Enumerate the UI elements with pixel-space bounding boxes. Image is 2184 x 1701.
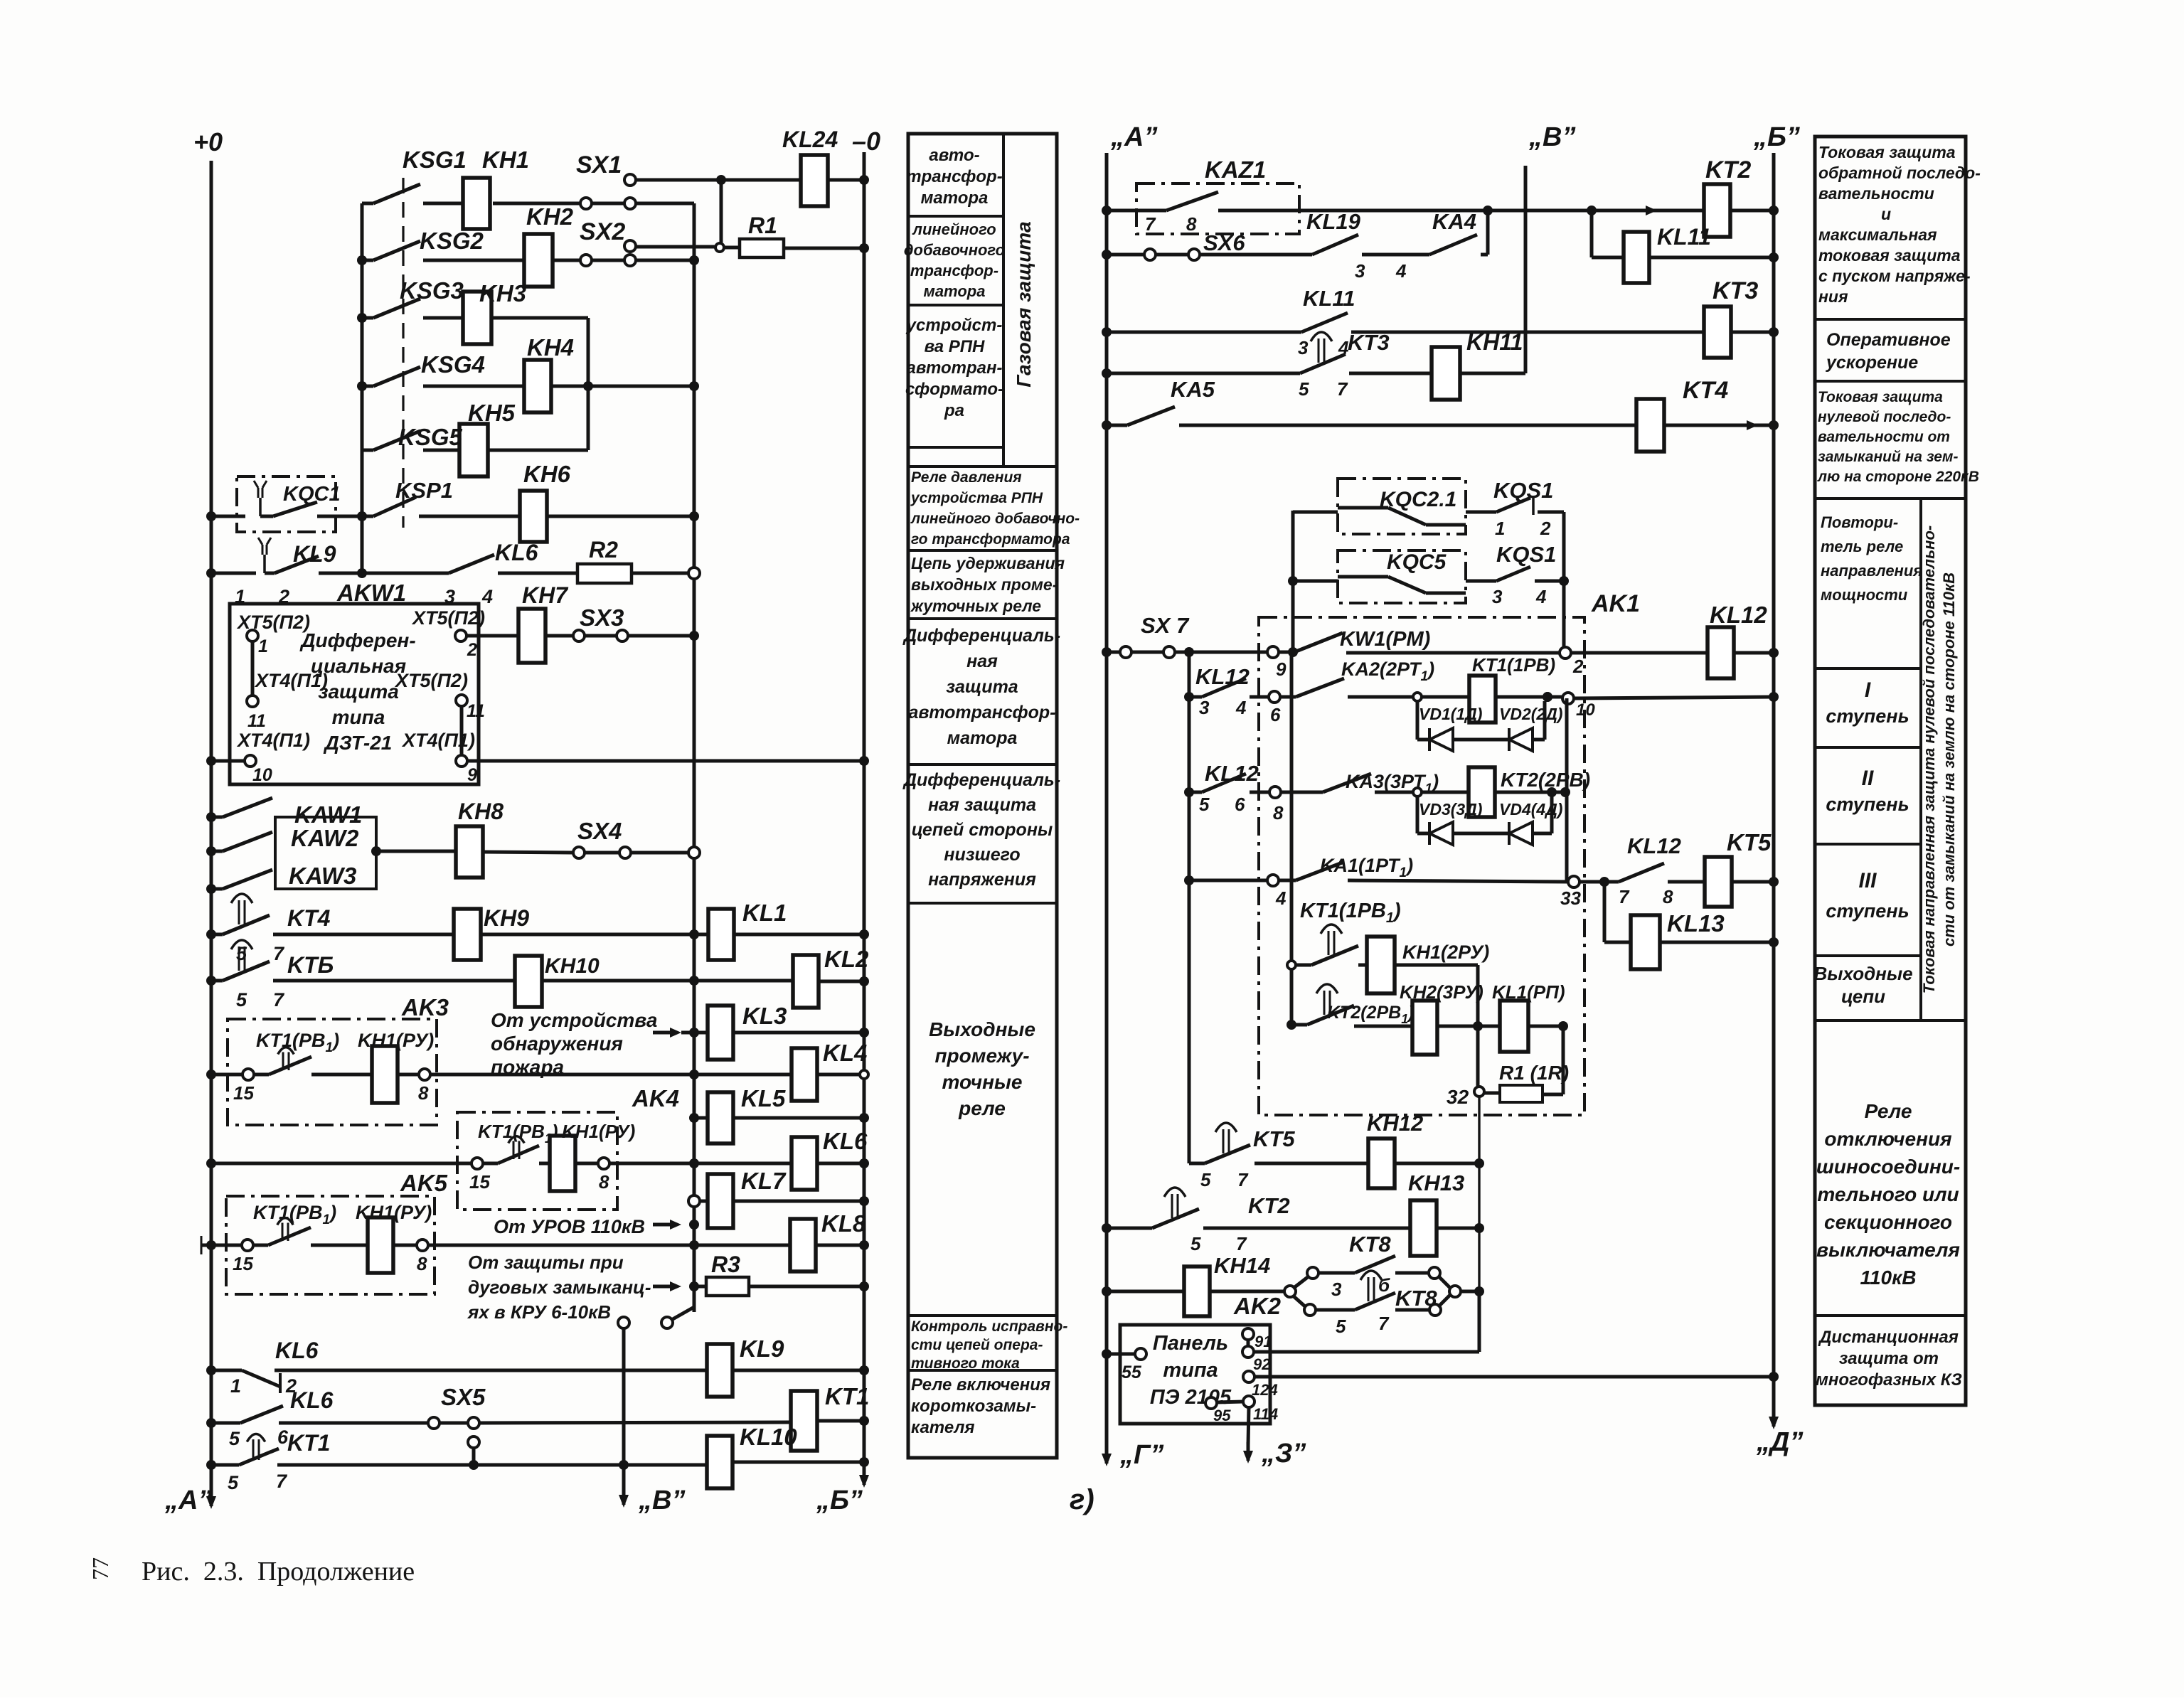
svg-text:жуточных реле: жуточных реле	[910, 597, 1041, 615]
svg-text:обнаружения: обнаружения	[491, 1033, 623, 1055]
apparatus box KQC5 (dash-dot)	[1288, 576, 1298, 586]
wire +0 to AK4	[206, 1158, 216, 1168]
svg-text:KL13: KL13	[1667, 910, 1725, 937]
table divider lines (left table)	[908, 465, 1057, 468]
wire KSG collector vertical	[361, 203, 364, 573]
svg-text:KTБ: KTБ	[287, 952, 334, 978]
link SX3	[545, 634, 573, 638]
svg-text:10: 10	[1576, 700, 1595, 720]
relay coil KL13	[1631, 915, 1660, 969]
svg-text:KH14: KH14	[1214, 1253, 1270, 1278]
wire KL1 to -0 bus	[734, 933, 864, 937]
terminal 8 AK5	[393, 1244, 417, 1247]
svg-text:авто-: авто-	[929, 146, 979, 165]
relay coil KL5	[689, 1113, 699, 1123]
link SX5	[279, 1422, 428, 1425]
contact KA1(1PT1)	[1184, 875, 1194, 885]
svg-text:8: 8	[599, 1171, 609, 1193]
svg-text:5: 5	[236, 943, 247, 964]
svg-text:SX5: SX5	[441, 1384, 486, 1410]
terminal 124 AK2	[1243, 1371, 1255, 1382]
right annotation table frame	[1815, 137, 1966, 1405]
apparatus box AK3 (dash-dot)	[228, 1019, 437, 1125]
apparatus box KQC1 (dash-dot)	[237, 476, 336, 532]
svg-text:7: 7	[1236, 1233, 1247, 1254]
wire vertical KL1 to R1(1R)	[1562, 1026, 1565, 1094]
relay coil KH8	[456, 826, 483, 878]
svg-text:сти цепей опера-: сти цепей опера-	[911, 1337, 1043, 1353]
contact KSG3	[357, 313, 367, 323]
svg-text:секционного: секционного	[1824, 1211, 1952, 1233]
contact KA3(3PT1)	[1281, 791, 1323, 794]
svg-text:KL10: KL10	[740, 1424, 797, 1450]
apparatus box AKW1 (D3T-21 differential relay)	[230, 604, 479, 784]
wire pin 9 to -0 bus	[467, 759, 864, 763]
contact KT1(PB1) in AK5	[253, 1244, 268, 1247]
resistor R2	[498, 572, 577, 575]
relay coil KH1(RU) in AK3	[311, 1073, 372, 1077]
svg-text:сти от замыканий на землю на с: сти от замыканий на землю на стороне 110…	[1940, 572, 1958, 947]
svg-text:KL12: KL12	[1710, 602, 1767, 628]
svg-text:KH2: KH2	[526, 203, 574, 230]
svg-text:выключателя: выключателя	[1816, 1239, 1960, 1261]
svg-text:SX3: SX3	[580, 604, 624, 631]
svg-text:устройст-: устройст-	[906, 316, 1003, 335]
svg-text:4: 4	[1535, 586, 1547, 607]
svg-text:KL9: KL9	[293, 541, 336, 567]
svg-text:ДЗТ-21: ДЗТ-21	[324, 732, 393, 754]
svg-text:VD4(4Д): VD4(4Д)	[1499, 800, 1562, 818]
svg-text:трансфор-: трансфор-	[906, 167, 1002, 186]
contact KT8 (3-6)	[1293, 1276, 1309, 1289]
svg-text:II: II	[1862, 767, 1874, 790]
svg-text:7: 7	[1619, 886, 1630, 907]
svg-text:циальная: циальная	[311, 655, 406, 677]
terminal 8 AK1	[1250, 791, 1269, 794]
wire bracket KAW1-KAW3	[274, 816, 277, 819]
apparatus box AK4 (dash-dot)	[457, 1112, 617, 1210]
svg-text:2: 2	[1572, 656, 1584, 677]
svg-text:типа: типа	[332, 706, 385, 728]
contact KQC1 with fork symbol	[259, 498, 262, 516]
svg-text:ная защита: ная защита	[928, 795, 1036, 815]
svg-text:цепи: цепи	[1841, 986, 1885, 1007]
wire KH1(2RU) to corner	[1395, 964, 1478, 967]
terminal 55 AK2	[1102, 1349, 1112, 1359]
svg-text:„З”: „З”	[1261, 1439, 1306, 1468]
svg-text:6: 6	[1270, 704, 1281, 725]
svg-text:ния: ния	[1818, 287, 1848, 306]
wire KL9 coil to -0 bus	[733, 1369, 864, 1372]
svg-text:KT8: KT8	[1349, 1232, 1391, 1257]
svg-text:AK5: AK5	[400, 1170, 448, 1196]
wire SX7 to AK1	[1175, 651, 1267, 654]
wire KL24 to -0 bus	[828, 178, 864, 182]
wire KT8 bridge merge	[1438, 1276, 1451, 1289]
svg-text:KSG4: KSG4	[421, 351, 485, 378]
relay coil KH1(RU) in AK4	[539, 1162, 550, 1166]
svg-text:KT1(1РВ1): KT1(1РВ1)	[1300, 900, 1401, 926]
svg-text:KA2(2РТ1): KA2(2РТ1)	[1341, 658, 1434, 684]
svg-text:–0: –0	[852, 127, 880, 156]
apparatus box AK2 panel PE2105	[1120, 1325, 1270, 1424]
relay coil KL24	[801, 155, 828, 206]
wire KH12 to vertical	[1395, 1162, 1479, 1166]
wire vertical terminal 10 to 33	[1565, 698, 1569, 882]
contact KT2 (5-7 time relay)	[1102, 1223, 1112, 1233]
relay coil KH1	[423, 202, 463, 206]
wire KH2 to KL1(RP)	[1437, 1025, 1500, 1028]
arrow on KT2 row	[1636, 209, 1653, 213]
wire KT2(2PB) right	[1495, 791, 1568, 794]
svg-text:Дистанционная: Дистанционная	[1818, 1328, 1959, 1347]
wire vertical line to node V	[622, 1328, 626, 1488]
svg-text:линейного добавочно-: линейного добавочно-	[910, 511, 1080, 527]
contact KA2(2PT1)	[1280, 695, 1296, 699]
svg-text:7: 7	[1337, 378, 1348, 400]
svg-text:KQS1: KQS1	[1493, 478, 1553, 503]
svg-text:3: 3	[1298, 337, 1309, 358]
svg-text:мощности: мощности	[1821, 586, 1908, 604]
wire KH4 to collector	[551, 385, 694, 388]
wire KL4 to -0 bus	[817, 1073, 864, 1077]
wire SX1 row to KL24	[635, 178, 801, 182]
svg-text:6: 6	[1235, 794, 1245, 815]
relay coil KT1(1PB)	[1469, 676, 1496, 722]
terminal 33 AK1	[1568, 876, 1580, 887]
svg-text:AK4: AK4	[632, 1085, 679, 1111]
svg-text:KH10: KH10	[545, 954, 600, 978]
contact KL6 (1-2)	[206, 1365, 216, 1375]
svg-text:77: 77	[87, 1557, 113, 1580]
svg-text:KL3: KL3	[742, 1003, 787, 1029]
link SX4	[483, 852, 573, 853]
contact KAW2	[206, 846, 216, 856]
contact KL6 (5-6)	[206, 1418, 216, 1428]
apparatus box AK5 (dash-dot)	[226, 1196, 435, 1294]
svg-text:KT4: KT4	[1683, 377, 1728, 404]
svg-text:Реле давления: Реле давления	[911, 469, 1022, 486]
svg-text:KH7: KH7	[522, 582, 569, 608]
svg-text:ПЭ 2105: ПЭ 2105	[1150, 1386, 1232, 1409]
svg-text:максимальная: максимальная	[1818, 225, 1937, 244]
svg-text:4: 4	[1235, 697, 1247, 718]
contact KL6 (3-4)	[449, 555, 494, 573]
svg-text:низшего: низшего	[944, 845, 1020, 865]
svg-text:VD2(2Д): VD2(2Д)	[1499, 705, 1562, 723]
wire KT1 row to KL10	[277, 1463, 707, 1467]
svg-text:KL6: KL6	[823, 1128, 868, 1154]
relay coil KL7	[688, 1195, 700, 1207]
svg-text:III: III	[1858, 869, 1877, 892]
svg-text:KL2: KL2	[824, 946, 869, 972]
svg-text:8: 8	[1663, 886, 1673, 907]
contact KAW1	[206, 812, 216, 822]
link SX6	[1102, 250, 1112, 260]
wire inner collector vertical (right)	[1188, 652, 1191, 1163]
svg-text:+0: +0	[193, 127, 223, 156]
resistor R1(1R)	[1484, 1092, 1500, 1095]
svg-text:9: 9	[467, 765, 477, 785]
relay coil KL2	[793, 955, 819, 1008]
svg-text:„В”: „В”	[638, 1486, 685, 1515]
svg-text:ная: ная	[966, 651, 998, 671]
wire +0 to pin 10	[206, 756, 216, 766]
contact KQS1 (3-4)	[1466, 580, 1496, 583]
wire KQS vertical right	[1562, 512, 1566, 649]
svg-text:VD1(1Д): VD1(1Д)	[1419, 705, 1482, 723]
svg-text:отключения: отключения	[1824, 1128, 1951, 1150]
svg-text:го трансформатора: го трансформатора	[911, 531, 1070, 548]
svg-text:трансфор-: трансфор-	[910, 262, 998, 279]
svg-text:сформато-: сформато-	[905, 380, 1003, 399]
svg-text:ва РПН: ва РПН	[925, 337, 985, 356]
apparatus box KQC2.1 (dash-dot)	[1293, 511, 1338, 514]
apparatus box AK1 (dash-dot)	[1259, 617, 1584, 1115]
svg-text:32: 32	[1447, 1086, 1469, 1108]
mechanical linkage dashed line KSG1-KSG5	[402, 178, 404, 528]
svg-text:KT5: KT5	[1253, 1126, 1295, 1151]
wire SX2 row to R1	[635, 245, 715, 249]
svg-text:KT5: KT5	[1727, 829, 1772, 855]
relay coil KH6	[419, 515, 520, 518]
svg-text:KT4: KT4	[287, 905, 331, 931]
arrow fire detection to KL3	[653, 1031, 677, 1035]
wire output collector vertical (left half)	[693, 203, 696, 1312]
diode VD3(3D) bypass loop	[1416, 796, 1419, 833]
relay coil KL4	[792, 1048, 817, 1101]
relay coil KL1(RP)	[1500, 1001, 1528, 1052]
wire SX4 to collector	[631, 851, 694, 855]
svg-text:AK2: AK2	[1233, 1293, 1282, 1319]
wire KL12 to B bus	[1734, 651, 1774, 655]
svg-text:KL7: KL7	[741, 1168, 787, 1194]
svg-text:7: 7	[1145, 213, 1156, 235]
terminal XT4(P1) pin 9	[460, 706, 464, 755]
wire KH5 to corner	[488, 449, 588, 452]
svg-text:точные: точные	[942, 1071, 1023, 1093]
wire terminal 32 down to KH12 row	[1478, 1097, 1480, 1352]
wire SX3 to collector	[628, 634, 694, 638]
svg-text:SX4: SX4	[577, 818, 622, 844]
svg-text:промежу-: промежу-	[934, 1045, 1029, 1067]
table divider lines (right table)	[1815, 318, 1966, 321]
svg-text:92: 92	[1253, 1355, 1271, 1373]
wire KL2 to -0 bus	[819, 980, 864, 983]
svg-text:KT8: KT8	[1395, 1286, 1437, 1311]
svg-text:KW1(РМ): KW1(РМ)	[1340, 628, 1430, 651]
contact KT5 (5-7 time relay)	[1189, 1162, 1205, 1166]
svg-text:11: 11	[247, 711, 266, 731]
left annotation table frame	[908, 134, 1057, 1458]
svg-text:ХТ4(П1): ХТ4(П1)	[236, 730, 310, 751]
wire SX6 row up to KAZ1 row	[1481, 253, 1488, 257]
svg-text:ХТ4(П1): ХТ4(П1)	[401, 730, 475, 751]
svg-text:токовая защита: токовая защита	[1818, 246, 1961, 265]
svg-text:Дифферен-: Дифферен-	[299, 629, 415, 651]
svg-text:обратной последо-: обратной последо-	[1818, 164, 1981, 182]
contact KW1(PM)	[1279, 651, 1294, 654]
wire KT2 to B bus	[1730, 209, 1774, 213]
svg-text:KAZ1: KAZ1	[1205, 156, 1266, 183]
contact KA5	[1102, 420, 1112, 430]
svg-text:5: 5	[1200, 1169, 1211, 1190]
wire KW1 row to terminal 2	[1346, 651, 1560, 655]
svg-text:направления: направления	[1821, 562, 1922, 580]
svg-text:8: 8	[1273, 802, 1284, 823]
svg-text:Оперативное: Оперативное	[1826, 330, 1951, 350]
contact KL11 (3-4)	[1102, 327, 1112, 337]
wire KL6 to -0 bus	[817, 1162, 864, 1166]
svg-text:кателя: кателя	[911, 1418, 975, 1437]
relay coil KH10	[273, 979, 515, 983]
terminal 15 AK3	[243, 1069, 254, 1080]
contact KT6 (time relay)	[206, 976, 216, 986]
svg-text:5: 5	[228, 1472, 239, 1493]
svg-text:AK3: AK3	[401, 994, 449, 1020]
contact KA4	[1362, 253, 1429, 257]
contact KQS1 (1-2)	[1466, 511, 1496, 514]
svg-text:4: 4	[1275, 887, 1287, 909]
svg-text:KT1(РВ1): KT1(РВ1)	[256, 1030, 339, 1055]
relay coil KT2(2PB)	[1469, 767, 1495, 817]
svg-text:4: 4	[481, 586, 493, 607]
svg-text:ра: ра	[944, 401, 964, 420]
svg-text:тивного тока: тивного тока	[911, 1355, 1020, 1372]
svg-text:KL19: KL19	[1306, 209, 1361, 234]
terminal 9 AK1	[1267, 646, 1279, 658]
contact KL12 (5-6)	[1184, 787, 1194, 797]
svg-text:SX 7: SX 7	[1141, 613, 1190, 638]
svg-text:Реле: Реле	[1865, 1100, 1912, 1122]
contact KL12 (7-8)	[1580, 880, 1604, 884]
terminal 15 AK4	[472, 1158, 483, 1169]
wire collector tail to link circle	[693, 1286, 696, 1307]
relay coil KT1	[791, 1391, 817, 1451]
relay coil KH3	[423, 316, 463, 320]
svg-text:5: 5	[1299, 378, 1309, 400]
wire R2 to collector	[632, 572, 694, 575]
svg-text:KT1(1РВ): KT1(1РВ)	[1472, 654, 1555, 676]
terminal XT4(P1) pin 11	[251, 641, 255, 695]
svg-text:тель реле: тель реле	[1821, 538, 1903, 555]
contact KT1(PB1) in AK4	[483, 1162, 498, 1166]
svg-text:„Б”: „Б”	[1753, 122, 1800, 152]
svg-text:г): г)	[1070, 1484, 1094, 1515]
terminal 15 AK5	[242, 1239, 253, 1251]
svg-text:91: 91	[1255, 1333, 1272, 1350]
svg-text:KH2(3РУ): KH2(3РУ)	[1400, 981, 1483, 1003]
svg-text:KL1(РП): KL1(РП)	[1492, 981, 1565, 1003]
svg-text:KH3: KH3	[479, 280, 526, 306]
wire AK3 to KL4 row	[430, 1073, 792, 1077]
svg-text:1: 1	[230, 1375, 241, 1397]
relay coil KH1(RU) in AK5	[311, 1244, 368, 1247]
svg-text:3: 3	[1199, 697, 1210, 718]
svg-text:7: 7	[273, 989, 285, 1011]
svg-text:ускорение: ускорение	[1825, 353, 1918, 373]
relay coil KT3	[1704, 306, 1731, 358]
svg-text:8: 8	[417, 1253, 427, 1274]
wire KT4 to B bus	[1664, 424, 1774, 427]
svg-text:KL12: KL12	[1195, 664, 1250, 689]
svg-text:тельного или: тельного или	[1817, 1183, 1959, 1205]
svg-text:KT1: KT1	[825, 1383, 869, 1409]
relay coil KL3	[689, 1028, 699, 1038]
wire KH13 to vertical	[1437, 1227, 1479, 1230]
svg-text:защита: защита	[318, 681, 399, 703]
svg-text:KL6: KL6	[290, 1387, 334, 1413]
svg-text:Дифференциаль-: Дифференциаль-	[902, 626, 1060, 646]
svg-text:матора: матора	[924, 282, 986, 300]
apparatus box KAZ1 (dash-dot)	[1136, 183, 1299, 234]
svg-text:KT1: KT1	[287, 1430, 330, 1456]
wire 124 to node D	[1255, 1375, 1774, 1379]
svg-text:KL1: KL1	[742, 900, 787, 926]
wire row2 to link circles	[553, 259, 582, 262]
wire KL8 to -0 bus	[816, 1244, 864, 1247]
terminal 8 AK4	[575, 1162, 598, 1166]
svg-text:95: 95	[1213, 1407, 1231, 1424]
svg-text:KH6: KH6	[523, 461, 571, 487]
svg-text:55: 55	[1122, 1363, 1142, 1382]
svg-text:SX6: SX6	[1203, 230, 1245, 255]
link circle to B line	[618, 1317, 629, 1328]
svg-text:KQC1: KQC1	[283, 483, 341, 506]
svg-text:10: 10	[252, 765, 272, 785]
wire AK4 to KL6	[609, 1162, 792, 1166]
wire row2 to collector	[635, 259, 694, 262]
wire KH14 to KT8 bridge	[1210, 1290, 1284, 1294]
relay coil KH7	[518, 609, 545, 663]
svg-text:ХТ5(П2): ХТ5(П2)	[411, 607, 485, 629]
svg-text:KAW1: KAW1	[294, 801, 362, 828]
svg-text:R1 (1R): R1 (1R)	[1499, 1062, 1569, 1084]
relay coil KH14	[1102, 1286, 1112, 1296]
svg-text:Реле включения: Реле включения	[911, 1375, 1050, 1395]
wire SX1 junction down to R1 row	[720, 180, 723, 242]
resistor R3	[694, 1285, 706, 1289]
contact KL19 (3-4)	[1200, 253, 1312, 257]
relay coil KH11	[1349, 372, 1432, 375]
svg-text:KT2(2РВ1): KT2(2РВ1)	[1327, 1003, 1415, 1026]
svg-text:KH12: KH12	[1367, 1111, 1423, 1136]
svg-text:напряжения: напряжения	[928, 870, 1036, 890]
terminal 10 AK1	[1562, 693, 1574, 704]
svg-text:KQC5: KQC5	[1387, 550, 1447, 574]
wire KH6 to collector	[547, 515, 694, 518]
svg-text:Токовая защита: Токовая защита	[1818, 143, 1956, 161]
svg-text:KL12: KL12	[1627, 833, 1681, 858]
wire +0 to AK5	[206, 1240, 216, 1250]
svg-text:5: 5	[1190, 1233, 1201, 1254]
relay coil KH9	[273, 933, 454, 937]
svg-text:R3: R3	[711, 1252, 740, 1277]
svg-text:R1: R1	[748, 213, 777, 238]
svg-text:5: 5	[1199, 794, 1210, 815]
contact KSG4	[357, 381, 367, 391]
relay coil KH2	[423, 259, 524, 262]
svg-text:выходных проме-: выходных проме-	[911, 575, 1058, 594]
svg-text:KSP1: KSP1	[395, 478, 453, 503]
svg-text:автотрансфор-: автотрансфор-	[909, 703, 1056, 722]
link circles row2	[580, 255, 592, 266]
svg-text:ступень: ступень	[1826, 794, 1909, 815]
svg-text:„Д”: „Д”	[1756, 1427, 1803, 1457]
svg-text:ступень: ступень	[1826, 900, 1909, 922]
terminal 91 AK2	[1242, 1328, 1254, 1340]
relay coil KL1	[708, 909, 734, 960]
